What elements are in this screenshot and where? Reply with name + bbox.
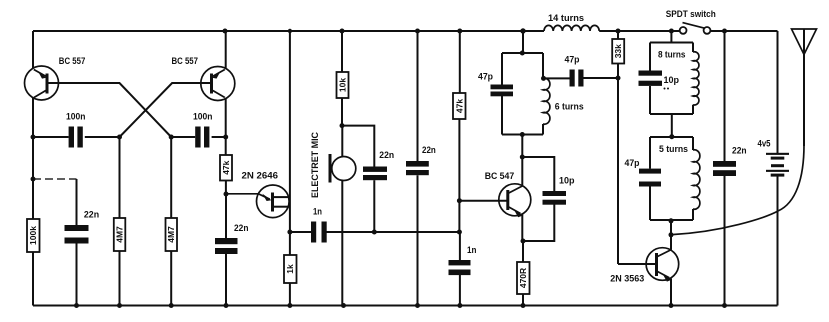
wire Q2 emitter to top rail <box>225 31 227 69</box>
wire Q2 collector down <box>225 98 227 137</box>
svg-text:100n: 100n <box>193 111 212 121</box>
svg-text:470R: 470R <box>518 268 528 288</box>
svg-text:2N 3563: 2N 3563 <box>610 274 644 284</box>
svg-text:2N 2646: 2N 2646 <box>242 171 279 181</box>
svg-text:47p: 47p <box>565 55 580 65</box>
capacitor C2 100n <box>171 111 226 147</box>
svg-text:1n: 1n <box>313 207 322 217</box>
resistor R1 100k <box>27 219 40 252</box>
wire Q5 base <box>618 263 656 265</box>
capacitor C12 10p <box>639 71 680 90</box>
svg-text:SPDT switch: SPDT switch <box>666 9 716 19</box>
capacitor C6 22n <box>363 150 394 232</box>
svg-text:22n: 22n <box>84 209 99 219</box>
svg-text:4M7: 4M7 <box>115 226 125 243</box>
tank T3 frame <box>650 137 693 220</box>
inductor L1 14 turns <box>544 13 599 31</box>
wire Q2 base cross-coupling to node B1 <box>120 83 211 137</box>
resistor R5 1k <box>284 255 297 283</box>
transistor Q4 BC 547 <box>485 171 531 217</box>
capacitor C8 1n <box>449 245 477 275</box>
electret microphone MIC <box>310 126 356 306</box>
transistor Q1 BC 557 <box>25 56 86 100</box>
transistor Q3 2N 2646 <box>226 171 290 218</box>
svg-text:47p: 47p <box>625 158 640 168</box>
wire tank3 bottom to Q5 collector <box>670 220 672 250</box>
wire antenna curve to Q5 collector node <box>672 145 804 235</box>
svg-text:5 turns: 5 turns <box>659 144 688 154</box>
inductor L2 6 turns <box>543 78 584 124</box>
transistor Q5 2N 3563 <box>610 248 678 284</box>
svg-text:22n: 22n <box>732 145 747 155</box>
svg-text:22n: 22n <box>234 223 249 233</box>
resistor R8 470R <box>517 241 530 306</box>
capacitor C9 10p <box>522 157 575 241</box>
svg-text:47k: 47k <box>454 99 464 113</box>
svg-text:22n: 22n <box>379 150 394 160</box>
svg-text:BC 557: BC 557 <box>59 56 86 66</box>
wire coil tap to C11 <box>544 77 619 79</box>
capacitor C4 22n <box>215 194 249 306</box>
switch SPDT <box>666 9 716 34</box>
inductor L4 5 turns <box>659 144 700 209</box>
capacitor C13 47p <box>625 158 662 187</box>
capacitor C1 100n <box>33 111 120 147</box>
wire top rail <box>33 30 778 32</box>
svg-text:8 turns: 8 turns <box>658 50 686 60</box>
capacitor C11 47p <box>565 55 584 87</box>
svg-text:22n: 22n <box>422 145 436 155</box>
node dots interior <box>31 51 675 244</box>
wire dashed branch to C3 <box>33 178 77 180</box>
battery BT1 4v5 <box>758 31 790 306</box>
svg-text:ELECTRET MIC: ELECTRET MIC <box>310 132 320 198</box>
wire bottom rail <box>33 305 778 307</box>
svg-text:100n: 100n <box>66 111 85 121</box>
svg-text:33k: 33k <box>613 44 623 58</box>
capacitor C14 22n <box>713 31 747 306</box>
svg-text:4M7: 4M7 <box>166 226 176 243</box>
wire tank1 top tap <box>522 31 524 53</box>
wire base node to Q4 <box>459 200 507 202</box>
wire Q4 emitter down <box>521 214 523 241</box>
node dots top rail <box>223 28 728 33</box>
svg-text:14 turns: 14 turns <box>548 13 584 23</box>
svg-text:47p: 47p <box>478 72 493 82</box>
inductor L3 8 turns <box>658 50 699 106</box>
tank T1 frame <box>502 53 543 135</box>
tank T2 frame <box>650 43 693 115</box>
capacitor C5 1n <box>290 207 459 243</box>
svg-text:6 turns: 6 turns <box>555 102 584 112</box>
svg-text:1n: 1n <box>467 245 477 255</box>
svg-text:100k: 100k <box>28 226 38 245</box>
wire Q1 base cross-coupling to node B2 <box>49 83 172 137</box>
resistor R6 10k <box>337 31 349 126</box>
wire tank2 to tank3 <box>671 114 673 137</box>
wire Q5 emitter down <box>670 279 672 306</box>
svg-text:10p: 10p <box>664 75 680 85</box>
wire mid rail <box>289 31 291 306</box>
transistor Q2 BC 557 <box>172 56 235 101</box>
resistor R3 4M7 <box>166 137 178 306</box>
wire Q4 collector up <box>521 157 523 186</box>
resistor R7 47k <box>453 31 466 201</box>
capacitor C7 22n <box>406 31 436 306</box>
svg-text:BC 557: BC 557 <box>172 56 199 66</box>
svg-text:4v5: 4v5 <box>758 139 771 149</box>
wire tank1 bottom tap <box>521 135 523 158</box>
wire base node down to C8 <box>458 201 461 306</box>
svg-text:BC 547: BC 547 <box>485 171 515 181</box>
svg-text:10k: 10k <box>337 78 347 92</box>
resistor R2 4M7 <box>114 137 126 306</box>
svg-text:47k: 47k <box>221 160 231 174</box>
wire 33k node down to Q5 base <box>617 78 619 264</box>
wire mic node to C6 <box>342 126 374 167</box>
wire left rail <box>32 31 34 306</box>
capacitor C3 22n <box>65 179 100 306</box>
svg-text:1k: 1k <box>285 264 295 274</box>
capacitor C10 47p <box>478 72 513 97</box>
antenna ANT <box>792 29 817 146</box>
resistor R4 47k <box>220 137 232 194</box>
wire tank2 top tap <box>670 31 672 43</box>
resistor R9 33k <box>612 31 624 78</box>
svg-text:10p: 10p <box>559 176 575 186</box>
node dots bottom rail <box>74 303 727 308</box>
